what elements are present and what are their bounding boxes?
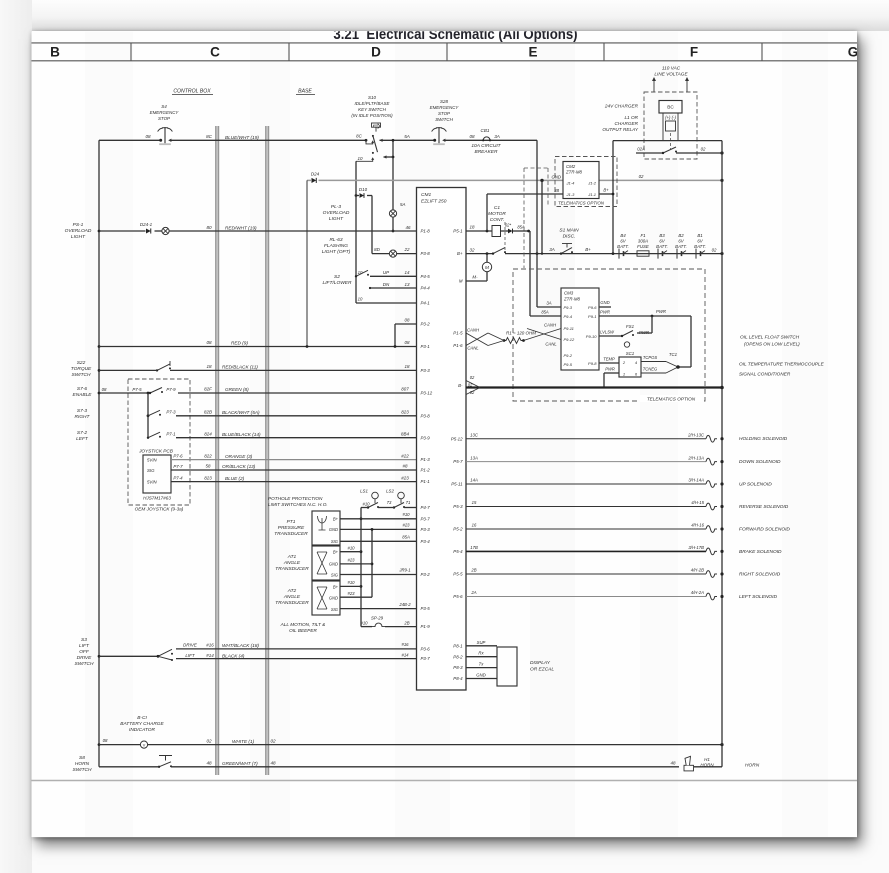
svg-text:10A CIRCUIT: 10A CIRCUIT [471, 143, 501, 149]
svg-text:P7-6: P7-6 [173, 454, 183, 459]
contactor C1 motor controller [488, 205, 506, 237]
svg-text:#10: #10 [402, 512, 410, 517]
svg-text:17B: 17B [470, 545, 478, 550]
svg-text:#10: #10 [362, 501, 370, 506]
svg-text:P5-6: P5-6 [453, 594, 463, 599]
wire PT1 GND row [340, 523, 417, 531]
battery B1 [694, 233, 706, 259]
svg-text:3A: 3A [494, 134, 500, 139]
svg-text:ALL MOTION, TILT &: ALL MOTION, TILT & [280, 622, 326, 627]
wire CAN twisted pair [466, 323, 561, 351]
svg-text:B2: B2 [678, 233, 684, 238]
label 8C [206, 134, 213, 139]
svg-text:22: 22 [404, 247, 410, 252]
svg-text:3/H-14A: 3/H-14A [688, 478, 704, 483]
svg-text:EMERGENCY: EMERGENCY [430, 105, 460, 110]
svg-text:#23: #23 [401, 475, 409, 480]
solenoid right solenoid [466, 568, 781, 578]
svg-text:CB1: CB1 [481, 128, 490, 133]
svg-text:02: 02 [701, 147, 706, 152]
svg-text:(OPENS ON LOW LEVEL): (OPENS ON LOW LEVEL) [744, 342, 800, 347]
svg-text:B+: B+ [457, 251, 463, 256]
svg-text:PWR: PWR [600, 309, 610, 314]
svg-text:B: B [50, 45, 60, 60]
svg-text:#23: #23 [347, 591, 355, 596]
diode D10 [355, 187, 372, 198]
svg-text:2B: 2B [403, 620, 409, 625]
svg-text:OFF: OFF [79, 649, 90, 655]
svg-text:B4: B4 [620, 233, 626, 238]
svg-text:GND: GND [329, 527, 338, 532]
label joystick part number [143, 496, 171, 501]
switch S8 horn switch [73, 755, 172, 773]
svg-text:SIG: SIG [147, 468, 155, 473]
svg-text:4/H-15: 4/H-15 [691, 500, 704, 505]
svg-text:LVLSW: LVLSW [600, 329, 615, 334]
sheet title [333, 25, 577, 42]
wire row BLACK/WHT (5A) [176, 410, 417, 416]
svg-text:2/H-13C: 2/H-13C [687, 432, 705, 437]
svg-text:02: 02 [712, 247, 717, 252]
svg-text:BASE: BASE [298, 89, 312, 95]
svg-text:5VIN: 5VIN [147, 479, 158, 484]
svg-text:LIGHT: LIGHT [329, 216, 344, 222]
wire AT2 B+ stub [340, 580, 361, 586]
svg-text:P4-4: P4-4 [421, 286, 431, 291]
svg-text:WHITE (1): WHITE (1) [232, 739, 255, 744]
svg-text:4/H-2B: 4/H-2B [691, 568, 704, 573]
wire riser 85A to P9-4 [530, 231, 561, 316]
svg-text:P4-5: P4-5 [421, 274, 431, 279]
svg-text:MOTOR: MOTOR [488, 211, 506, 217]
svg-text:P7-5: P7-5 [132, 387, 142, 392]
svg-text:4/H-2A: 4/H-2A [691, 590, 704, 595]
header band border [32, 43, 858, 61]
svg-text:TRANSDUCER: TRANSDUCER [275, 600, 309, 606]
svg-text:P5-1: P5-1 [453, 229, 463, 234]
svg-text:807: 807 [401, 387, 409, 392]
svg-text:B+: B+ [333, 585, 339, 590]
svg-text:HJS7M17#63: HJS7M17#63 [143, 496, 171, 501]
svg-text:KEY SWITCH: KEY SWITCH [358, 107, 386, 112]
svg-text:CONTROL BOX: CONTROL BOX [173, 89, 211, 95]
lamp RL-63 flashing light [322, 237, 417, 257]
label 24V charger [604, 104, 639, 109]
svg-text:DOWN SOLENOID: DOWN SOLENOID [739, 459, 781, 465]
wire row B+ motor bus [466, 247, 724, 255]
svg-text:RIGHT SOLENOID: RIGHT SOLENOID [739, 572, 781, 578]
svg-text:BLUE/BLACK (14): BLUE/BLACK (14) [222, 432, 261, 437]
module CM2 ZTR-M8 [563, 162, 599, 199]
svg-text:F: F [690, 45, 698, 60]
svg-text:02: 02 [639, 174, 644, 179]
wire row GREEN/WHT (7) horn [99, 745, 722, 767]
svg-text:B+: B+ [333, 550, 339, 555]
svg-text:S2: S2 [334, 274, 340, 280]
svg-text:P3-7: P3-7 [421, 656, 431, 661]
label OEM JOYSTICK [135, 507, 184, 512]
svg-text:3A: 3A [549, 247, 554, 252]
label 08b [469, 134, 475, 139]
svg-text:P3-1: P3-1 [421, 344, 431, 349]
wire AT1 SIG row [340, 568, 417, 575]
svg-text:P1-3: P1-3 [421, 457, 431, 462]
svg-text:EMERGENCY: EMERGENCY [150, 110, 180, 115]
svg-text:M: M [459, 279, 463, 284]
BASE zone label [296, 89, 315, 95]
svg-text:2B: 2B [470, 568, 476, 573]
svg-text:02: 02 [470, 390, 475, 395]
svg-text:JR9-1: JR9-1 [398, 568, 410, 573]
svg-text:73: 73 [387, 500, 392, 505]
relay BC charger output [659, 101, 682, 150]
label L1 OR relay [602, 115, 638, 132]
meter B-CI battery charge indicator [120, 715, 164, 748]
wire display GND [466, 673, 497, 679]
wire joystick common [147, 393, 149, 438]
svg-text:L1 OR: L1 OR [624, 115, 638, 120]
label TELEMATICS OPTION big [640, 395, 702, 402]
wire beeper row to P1-9 [361, 626, 417, 628]
svg-text:P5-11: P5-11 [451, 482, 463, 487]
svg-text:FS1: FS1 [626, 324, 635, 329]
svg-text:08: 08 [405, 340, 410, 345]
label all motion beeper [280, 622, 326, 633]
svg-text:#14: #14 [206, 653, 214, 658]
svg-text:08: 08 [206, 340, 212, 345]
column label E [528, 45, 537, 60]
svg-text:1: 1 [623, 372, 625, 377]
svg-text:SIG: SIG [331, 607, 339, 612]
svg-text:J1-4: J1-4 [566, 180, 576, 185]
svg-text:RED (9): RED (9) [231, 341, 248, 346]
svg-text:08: 08 [145, 134, 151, 139]
module joystick PCB [138, 449, 183, 494]
svg-text:16: 16 [472, 523, 477, 528]
diode D24 [311, 172, 320, 183]
switch FS1 float [599, 316, 652, 347]
svg-text:02: 02 [468, 382, 473, 387]
svg-text:P3-8: P3-8 [421, 251, 431, 256]
svg-text:RED/BLACK (11): RED/BLACK (11) [222, 365, 258, 370]
wire PT1 B+ row [340, 512, 417, 519]
battery B3 [656, 233, 668, 259]
solenoid left solenoid [466, 590, 777, 600]
svg-text:BATT.: BATT. [617, 244, 629, 249]
svg-text:BREAKER: BREAKER [474, 149, 498, 155]
svg-text:OIL LEVEL FLOAT SWITCH: OIL LEVEL FLOAT SWITCH [740, 335, 800, 340]
svg-text:BRAKE SOLENOID: BRAKE SOLENOID [739, 549, 782, 555]
svg-text:OR EZCAL: OR EZCAL [530, 667, 554, 673]
svg-text:80: 80 [206, 225, 212, 230]
svg-text:13: 13 [405, 282, 410, 287]
wire row WHITE (1) [99, 738, 724, 746]
svg-text:GREEN/WHT (7): GREEN/WHT (7) [222, 761, 258, 766]
svg-text:CM3: CM3 [564, 291, 574, 296]
svg-text:P9-3: P9-3 [564, 305, 573, 310]
label 46 [406, 225, 411, 230]
svg-text:P9-10: P9-10 [586, 334, 597, 339]
svg-text:13C: 13C [470, 432, 479, 437]
svg-text:5A: 5A [404, 134, 410, 139]
svg-text:D24: D24 [311, 172, 320, 177]
resistor R1 CAN terminator [503, 331, 537, 344]
svg-text:DISC.: DISC. [563, 234, 576, 240]
svg-text:#16: #16 [206, 643, 214, 648]
svg-text:P8-4: P8-4 [453, 676, 463, 681]
wire stub P3-2 [395, 318, 417, 347]
svg-text:P4-7: P4-7 [421, 505, 431, 510]
svg-text:823: 823 [401, 410, 409, 415]
svg-text:P5-3: P5-3 [453, 504, 463, 509]
wire row RED/WHT (19) [99, 230, 417, 232]
wire PT1 SIG row [340, 535, 417, 542]
svg-text:LIFT: LIFT [185, 653, 194, 658]
svg-text:LINE VOLTAGE: LINE VOLTAGE [654, 72, 688, 77]
svg-text:48: 48 [671, 761, 676, 766]
svg-text:BLUE/WHT (19): BLUE/WHT (19) [225, 135, 259, 140]
svg-text:P5-2: P5-2 [453, 527, 463, 532]
wire riser gnd tap [541, 180, 543, 253]
svg-text:BLUE (2): BLUE (2) [225, 476, 245, 481]
svg-text:CANL: CANL [467, 346, 479, 351]
diode D24-1 [140, 222, 153, 234]
switch S2 lift/lower [323, 270, 417, 289]
svg-text:TCNEG: TCNEG [643, 367, 658, 372]
svg-text:13A: 13A [470, 455, 478, 460]
svg-text:G: G [848, 45, 859, 60]
svg-text:SP-29: SP-29 [371, 616, 384, 621]
svg-text:R1 = 120 OHM: R1 = 120 OHM [506, 331, 536, 336]
svg-text:SUP: SUP [477, 640, 486, 645]
svg-text:OUTPUT RELAY: OUTPUT RELAY [602, 127, 638, 132]
svg-text:DISPLAY: DISPLAY [530, 660, 551, 666]
svg-text:02*: 02* [505, 223, 512, 228]
svg-text:P5-5: P5-5 [453, 572, 463, 577]
svg-text:PWR: PWR [656, 309, 666, 314]
svg-text:3/H-17B: 3/H-17B [688, 545, 704, 550]
switch S1 main disconnect [559, 228, 579, 255]
svg-text:32: 32 [470, 247, 475, 252]
svg-text:HORN: HORN [700, 763, 714, 768]
svg-text:M-: M- [472, 275, 478, 280]
wire C1 to CM2 38 [487, 188, 563, 231]
svg-text:P3-6: P3-6 [421, 647, 431, 652]
svg-text:PT1: PT1 [287, 519, 296, 525]
svg-text:P9-11: P9-11 [564, 326, 574, 331]
switch S22 torque switch [71, 360, 171, 378]
svg-text:10: 10 [358, 156, 363, 161]
wire display Tx [466, 662, 497, 668]
svg-text:SWITCH: SWITCH [435, 117, 453, 122]
svg-text:TCPOS: TCPOS [643, 355, 657, 360]
svg-text:P9-4: P9-4 [564, 314, 573, 319]
svg-text:HOLDING SOLENOID: HOLDING SOLENOID [739, 436, 788, 442]
svg-text:08: 08 [405, 318, 410, 323]
svg-text:DRIVE: DRIVE [183, 643, 198, 648]
svg-text:BATT.: BATT. [694, 244, 706, 249]
svg-text:BATT.: BATT. [656, 244, 668, 249]
svg-text:85A: 85A [402, 535, 410, 540]
svg-text:2/H-13A: 2/H-13A [687, 455, 704, 460]
svg-text:LIMIT SWITCHES N.C. H.O.: LIMIT SWITCHES N.C. H.O. [268, 502, 328, 507]
svg-text:Rx: Rx [478, 651, 484, 656]
contact BC relay [636, 147, 724, 155]
svg-text:PWR: PWR [639, 330, 649, 335]
label pothole protection [268, 496, 328, 507]
svg-text:UP: UP [383, 270, 389, 275]
wire riser 8C to P9-3 [537, 140, 561, 307]
svg-text:P7-7: P7-7 [173, 464, 183, 469]
svg-text:3.21 Electrical Schematic (Al: 3.21 Electrical Schematic (All Options) [333, 25, 577, 42]
switch S7-6 enable [73, 386, 177, 398]
svg-text:P5-7: P5-7 [453, 459, 463, 464]
svg-text:02A: 02A [637, 147, 645, 152]
label signal conditioner [739, 372, 791, 377]
svg-text:STOP: STOP [158, 116, 170, 121]
horn H1 [684, 756, 714, 771]
svg-text:GND: GND [329, 596, 338, 601]
svg-text:#10: #10 [360, 620, 368, 625]
svg-text:S10: S10 [368, 95, 376, 100]
switch LS1 [360, 489, 379, 509]
svg-text:OVERLOAD: OVERLOAD [65, 228, 92, 234]
wire gray ground bus [307, 179, 724, 347]
svg-text:TELEMATICS OPTION: TELEMATICS OPTION [647, 396, 696, 401]
label 08 [145, 134, 151, 139]
svg-text:P3-2: P3-2 [421, 572, 431, 577]
svg-text:INDICATOR: INDICATOR [129, 727, 156, 733]
svg-text:P3-3: P3-3 [421, 527, 431, 532]
switch LS2 [386, 489, 410, 509]
svg-text:ZTR-M8: ZTR-M8 [563, 297, 581, 302]
wire J1-1 B+ [599, 188, 614, 196]
svg-text:#23: #23 [402, 523, 410, 528]
svg-text:PL-3: PL-3 [331, 204, 341, 210]
page footer separator [32, 780, 858, 782]
svg-text:J1-2: J1-2 [587, 180, 597, 185]
svg-text:SWITCH: SWITCH [75, 661, 95, 667]
label 5A [404, 134, 410, 139]
svg-text:D: D [371, 45, 381, 60]
wire display SUP [466, 640, 497, 646]
svg-text:SIGNAL CONDITIONER: SIGNAL CONDITIONER [739, 372, 791, 377]
enclosure telematics option small [555, 157, 617, 207]
svg-text:85A: 85A [541, 310, 549, 315]
svg-text:DRIVE: DRIVE [77, 655, 92, 661]
svg-text:CANH: CANH [544, 323, 557, 328]
CM1 left pin labels [421, 229, 433, 662]
svg-text:P1-9: P1-9 [421, 624, 431, 629]
svg-text:S22: S22 [77, 360, 86, 366]
svg-text:POTHOLE PROTECTION: POTHOLE PROTECTION [268, 496, 323, 501]
svg-text:P8-2: P8-2 [453, 654, 463, 659]
svg-text:JOYSTICK PCB: JOYSTICK PCB [138, 449, 173, 454]
svg-text:110 VAC: 110 VAC [662, 66, 681, 71]
svg-text:CM2: CM2 [566, 164, 576, 169]
svg-text:SC1: SC1 [626, 351, 635, 356]
svg-text:14A: 14A [470, 478, 478, 483]
solenoid brake solenoid [466, 545, 782, 555]
wire TEMP [599, 356, 619, 363]
svg-text:48: 48 [206, 761, 212, 766]
svg-text:BC: BC [667, 105, 674, 110]
svg-text:GREEN (8): GREEN (8) [225, 387, 249, 392]
bulkhead connector bar 2 [265, 126, 269, 775]
svg-text:P9-5: P9-5 [564, 362, 573, 367]
wire M- row [466, 275, 487, 281]
svg-text:E: E [528, 45, 537, 60]
svg-text:WHT/BLACK (18): WHT/BLACK (18) [222, 643, 259, 648]
switch S7-3 right [75, 408, 177, 420]
wire key sw lower row [0, 0, 1, 1]
column label G [848, 45, 859, 60]
svg-text:BLACK (4): BLACK (4) [222, 653, 245, 658]
wire row OR/BLACK (13) [171, 464, 417, 470]
svg-text:P3-5: P3-5 [421, 606, 431, 611]
label TELEMATICS OPTION small [558, 200, 605, 206]
svg-text:822: 822 [204, 453, 212, 458]
svg-text:ANGLE: ANGLE [283, 594, 301, 600]
link C1 dashed [504, 222, 506, 250]
wire display Rx [466, 651, 497, 657]
svg-text:BATT.: BATT. [675, 244, 687, 249]
svg-text:(+) (-): (+) (-) [665, 115, 676, 120]
module SC1 signal conditioner [619, 351, 641, 377]
svg-text:P5-12: P5-12 [451, 436, 463, 441]
svg-text:SIG: SIG [331, 572, 339, 577]
svg-text:HORN: HORN [745, 763, 760, 769]
svg-text:OVERLOAD: OVERLOAD [323, 210, 350, 216]
svg-text:3A: 3A [546, 301, 551, 306]
svg-text:LEFT SOLENOID: LEFT SOLENOID [739, 594, 777, 600]
source 110 VAC arrows [652, 66, 689, 93]
svg-text:P3-7: P3-7 [421, 516, 431, 521]
svg-text:CANL: CANL [545, 341, 557, 346]
svg-text:OIL TEMPERATURE THERMOCOUPLE: OIL TEMPERATURE THERMOCOUPLE [739, 362, 825, 367]
svg-text:P9-8: P9-8 [588, 361, 597, 366]
svg-text:TRANSDUCER: TRANSDUCER [274, 531, 308, 537]
svg-text:824: 824 [204, 431, 212, 436]
svg-text:J1-3: J1-3 [566, 192, 576, 197]
wire name RED/WHT (19) [225, 226, 257, 231]
svg-text:S7-3: S7-3 [77, 408, 87, 414]
svg-text:P8-1: P8-1 [453, 643, 463, 648]
svg-text:P8-3: P8-3 [453, 665, 463, 670]
column label D [371, 45, 381, 60]
svg-text:S1 MAIN: S1 MAIN [559, 228, 579, 234]
svg-text:P3-8: P3-8 [421, 413, 431, 418]
svg-text:SWITCH: SWITCH [72, 372, 92, 378]
svg-text:FORWARD SOLENOID: FORWARD SOLENOID [739, 527, 790, 533]
svg-text:08: 08 [102, 387, 107, 392]
column label F [690, 45, 698, 60]
svg-text:S7-2: S7-2 [77, 430, 87, 436]
svg-text:P3-2: P3-2 [421, 322, 431, 327]
svg-text:ORANGE (3): ORANGE (3) [225, 454, 253, 459]
svg-text:82B: 82B [204, 410, 212, 415]
wire left supply rail [98, 140, 101, 767]
svg-text:02: 02 [270, 738, 276, 743]
svg-text:TEMP: TEMP [603, 356, 615, 361]
wire row BLACK (4) lift [176, 652, 417, 658]
svg-text:02: 02 [470, 375, 475, 380]
solenoid holding solenoid [466, 432, 788, 442]
solenoid reverse solenoid [466, 500, 789, 510]
svg-text:LIFT/LOWER: LIFT/LOWER [323, 280, 352, 286]
CM1 right pin labels [451, 229, 463, 681]
svg-text:D24-1: D24-1 [140, 222, 153, 227]
